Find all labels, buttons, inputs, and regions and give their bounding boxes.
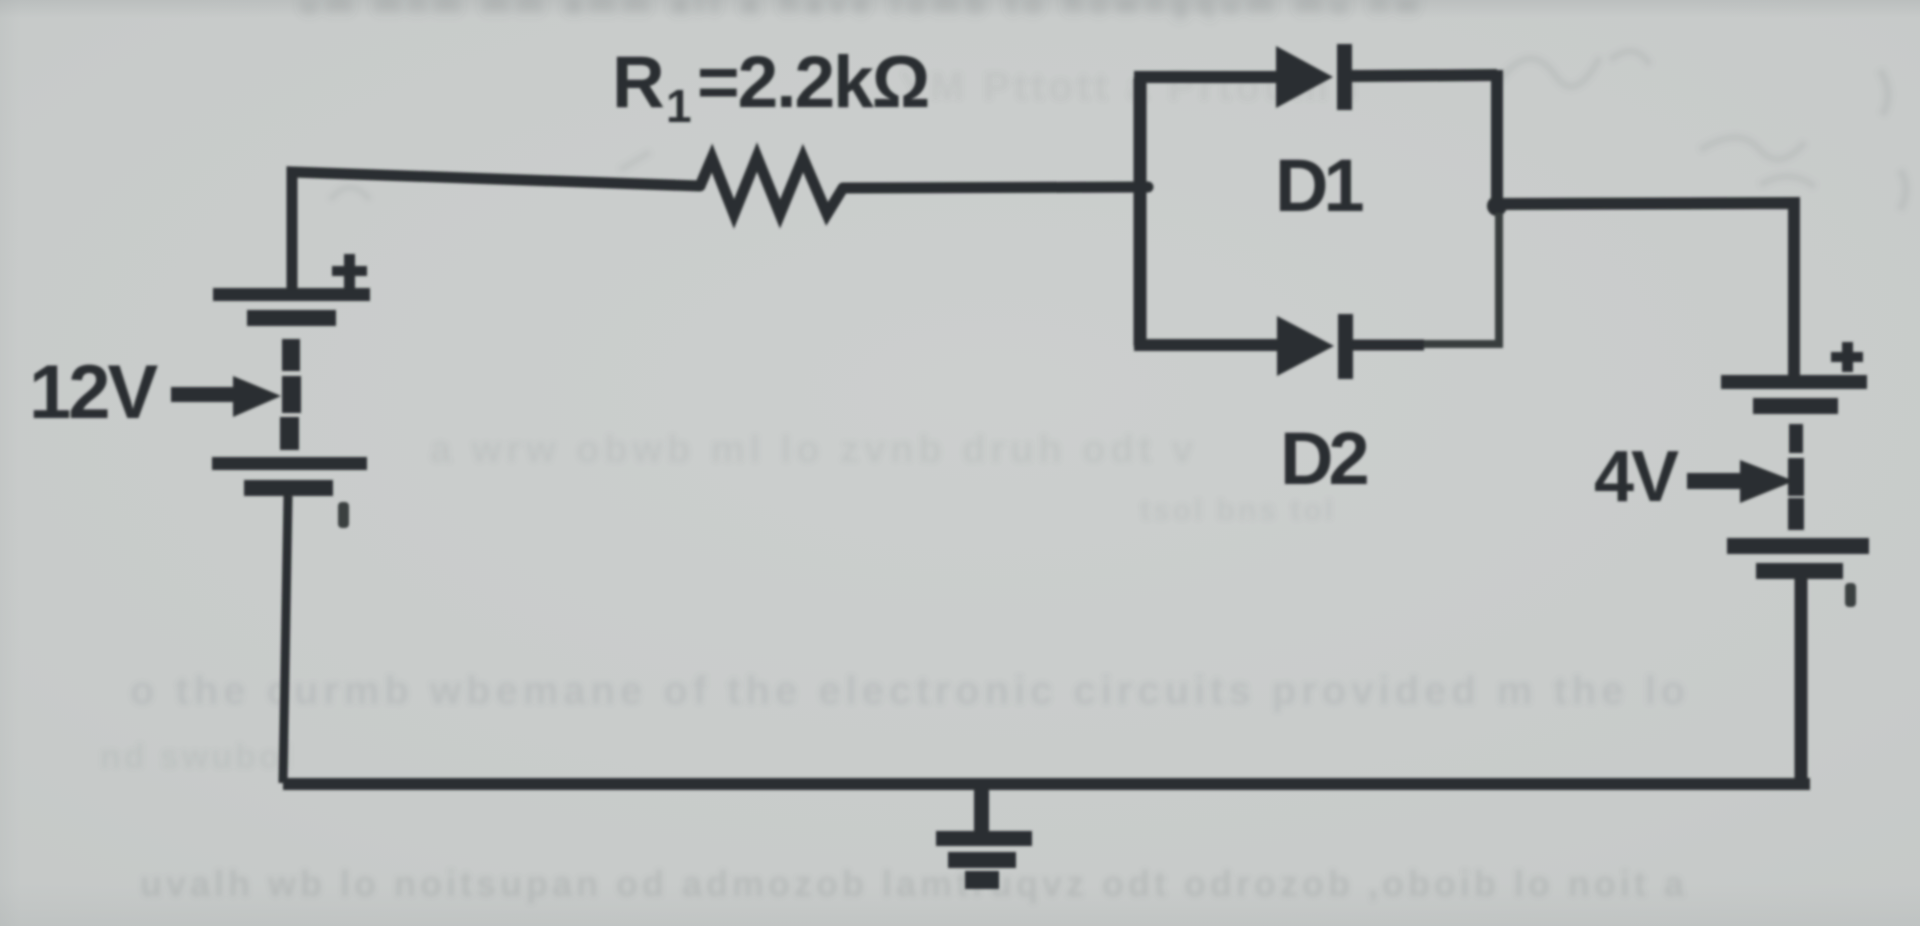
svg-text:um mnm mm amm all a have lomb: um mnm mm amm all a have lomb to howngqu… bbox=[300, 0, 1426, 20]
ground bbox=[936, 788, 1032, 889]
svg-text:o the curmb wbemane of the ele: o the curmb wbemane of the electronic ci… bbox=[130, 669, 1690, 713]
wire: bottom branch anode side bbox=[1134, 339, 1277, 351]
svg-text:=2.2kΩ: =2.2kΩ bbox=[697, 42, 928, 123]
node: diode pair output junction (dot) bbox=[1487, 196, 1507, 216]
wire: D1 cathode to right branch node bbox=[1352, 75, 1497, 76]
svg-text:D2: D2 bbox=[1280, 417, 1367, 500]
svg-text:12V: 12V bbox=[29, 350, 159, 435]
wire: resistor to diode pair input node bbox=[843, 187, 1148, 188]
svg-text:a wrw obwb ml lo zvnb druh odt: a wrw obwb ml lo zvnb druh odt v bbox=[430, 429, 1198, 471]
resistor R1 bbox=[700, 157, 843, 214]
wire: right branch vertical upper bbox=[1491, 70, 1503, 207]
minus tick of B2 bbox=[1845, 583, 1856, 607]
wire: B1 - terminal down to bottom rail bbox=[283, 496, 288, 783]
plus terminal of B1 bbox=[332, 254, 367, 288]
wire: B2 - terminal down to bottom rail bbox=[1795, 579, 1808, 784]
minus tick of B1 bbox=[338, 502, 349, 528]
wire: D2 cathode to right branch bbox=[1353, 340, 1424, 351]
svg-text:4V: 4V bbox=[1594, 437, 1679, 517]
svg-text:uvalh wb lo noitsupan od admoz: uvalh wb lo noitsupan od admozob lamtruq… bbox=[140, 863, 1688, 904]
svg-text:D1: D1 bbox=[1275, 144, 1363, 227]
battery B2 4V bbox=[1721, 375, 1869, 579]
diode D1 bbox=[1276, 44, 1352, 110]
wire: output node to 4V battery + terminal bbox=[1500, 203, 1794, 377]
wire: right branch vertical lower (thin) bbox=[1495, 213, 1503, 344]
wire: top branch anode side bbox=[1134, 71, 1277, 83]
svg-text:1: 1 bbox=[666, 80, 692, 132]
battery B1 12V bbox=[212, 288, 370, 496]
label R1 value bbox=[612, 42, 928, 132]
svg-text:nd swubol: nd swubol bbox=[100, 738, 295, 776]
svg-text:R: R bbox=[612, 42, 664, 123]
wire: bottom rail bbox=[283, 778, 1810, 790]
wire: 12V battery + terminal up and across top to resistor bbox=[292, 172, 700, 290]
plus terminal of B2 bbox=[1831, 342, 1863, 372]
diode D2 bbox=[1277, 314, 1353, 379]
arrow pointer for 4V label bbox=[1687, 460, 1794, 503]
arrow pointer for 12V label bbox=[171, 376, 281, 417]
wire: diode pair left vertical / input node A bbox=[1134, 78, 1147, 346]
